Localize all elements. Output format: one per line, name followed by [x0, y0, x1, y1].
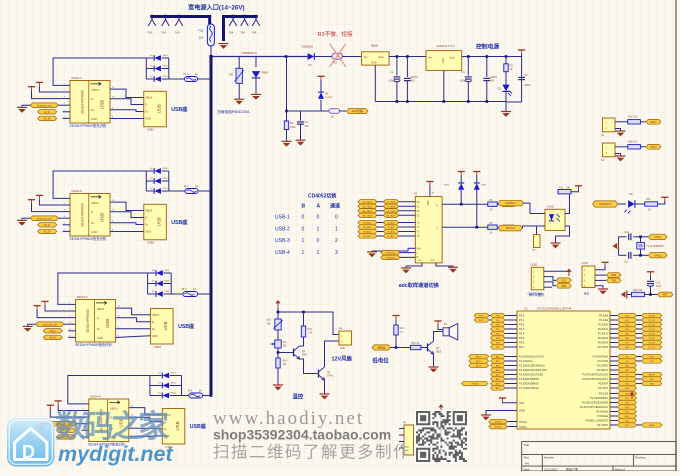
- power symbol speaker: [434, 320, 441, 322]
- net label right2 wkup: [642, 372, 663, 376]
- diode D32: [148, 281, 172, 287]
- junction on VIN bus: [210, 78, 213, 81]
- net label P0.4: [491, 331, 506, 335]
- wire Y1 to U1: [399, 226, 416, 228]
- ground below C4: [296, 139, 306, 141]
- wire fuse to VIN bus: [198, 293, 211, 295]
- svg-text:R18 510: R18 510: [628, 141, 638, 144]
- junction on VIN bus: [210, 293, 213, 296]
- svg-text:P0.7: P0.7: [519, 345, 525, 349]
- svg-text:P4.6/EX_LVD/RST2: P4.6/EX_LVD/RST2: [586, 420, 609, 423]
- svg-text:P2.0/A8: P2.0/A8: [599, 315, 609, 318]
- wire X1 to U1: [399, 205, 416, 207]
- regulator ground rail: [375, 101, 506, 103]
- svg-text:P1.7(ADC7)SCLK: P1.7(ADC7)SCLK: [519, 387, 539, 390]
- net label right P4.2: [618, 400, 637, 404]
- resistor R5: [488, 202, 497, 206]
- svg-text:R4: R4: [290, 121, 294, 125]
- connector TA5: [241, 17, 249, 27]
- svg-text:1K: 1K: [331, 116, 334, 119]
- net label right P2.7: [618, 345, 637, 349]
- net label right P4.7: [618, 423, 637, 427]
- svg-text:A1_D+: A1_D+: [44, 118, 52, 121]
- net label right2 beep: [642, 423, 663, 427]
- power symbol VCC pin2: [36, 194, 43, 196]
- svg-text:X: X: [436, 203, 438, 207]
- wire pot to R14: [277, 348, 279, 358]
- LED D5 power indicator: [502, 90, 509, 92]
- svg-text:8050: 8050: [302, 355, 308, 357]
- junction on VIN bus: [210, 394, 213, 397]
- fuse F1 10A vertical: [207, 24, 214, 46]
- net label right2 P2.5: [642, 336, 663, 340]
- ground pin4: [36, 425, 46, 427]
- wire R18 right: [645, 294, 658, 296]
- wire col1b: [489, 319, 491, 321]
- net label right2 P2.7: [642, 345, 663, 349]
- ground varistor: [234, 98, 244, 100]
- wire pin4 to ground: [22, 218, 63, 220]
- svg-text:A3_D+: A3_D+: [49, 337, 57, 340]
- net label right P2.6: [618, 340, 637, 344]
- svg-text:SE334+FP6600: SE334+FP6600: [86, 309, 90, 333]
- aux connector P9: [404, 425, 414, 455]
- svg-text:R18 10K: R18 10K: [633, 289, 643, 292]
- svg-text:P4.3/CCP2/T+ED2/SCLK: P4.3/CCP2/T+ED2/SCLK: [580, 406, 609, 409]
- net label P1.1: [491, 359, 506, 363]
- svg-text:A2_D-: A2_D-: [44, 224, 51, 227]
- wire resistor to label: [640, 146, 645, 148]
- wire R11 to power: [571, 190, 579, 192]
- svg-text:ALE: ALE: [625, 415, 630, 418]
- capacitor C1 220uF: [394, 76, 401, 78]
- svg-text:VBUS: VBUS: [152, 313, 159, 317]
- svg-text:10K: 10K: [400, 332, 404, 334]
- svg-text:10uF: 10uF: [656, 286, 662, 288]
- svg-text:R15: R15: [400, 328, 405, 330]
- svg-text:12V风扇: 12V风扇: [352, 108, 363, 113]
- svg-text:TIP41: TIP41: [327, 376, 334, 378]
- svg-text:KEY2: KEY2: [650, 146, 657, 149]
- svg-text:A2_ADC: A2_ADC: [363, 226, 372, 229]
- wire R15 to node: [395, 335, 397, 348]
- net label P0.5: [491, 336, 506, 340]
- svg-text:CD4052-A: CD4052-A: [386, 252, 396, 255]
- net label right P3.0: [618, 354, 637, 358]
- net label right P4.1: [618, 396, 637, 400]
- main VIN rail: [211, 56, 308, 58]
- wire D- IC to USB: [129, 417, 163, 422]
- watermark QR code: [415, 410, 469, 464]
- svg-text:扫描二维码了解更多制作: 扫描二维码了解更多制作: [213, 443, 411, 462]
- net label SCL: [556, 278, 571, 283]
- wire xtal top right: [633, 236, 648, 238]
- svg-text:GND: GND: [441, 57, 445, 63]
- svg-text:DR24-1: DR24-1: [72, 76, 83, 80]
- svg-text:U2: U2: [524, 306, 528, 310]
- net label A4_D+: [56, 435, 75, 439]
- svg-text:1: 1: [317, 250, 320, 256]
- svg-text:P3.2/INT0: P3.2/INT0: [597, 365, 609, 368]
- connector TA3: [175, 17, 183, 27]
- wire pin1 to diode rail: [68, 376, 150, 404]
- svg-text:104uF: 104uF: [525, 85, 532, 87]
- wire OLED gnd: [550, 277, 557, 281]
- svg-text:OLED: OLED: [531, 263, 538, 266]
- sheet right border: [675, 0, 677, 471]
- IC left pin stubs: [68, 302, 75, 337]
- junction TA2: [164, 15, 167, 18]
- transistor Q2 TIP41: [318, 370, 320, 378]
- net label X0 col1: [358, 200, 377, 204]
- svg-text:串口1通讯: 串口1通讯: [529, 292, 545, 297]
- svg-text:GND: GND: [152, 334, 158, 338]
- svg-text:220uF: 220uF: [389, 81, 396, 83]
- junction xtal2: [639, 254, 642, 257]
- net label P0.2: [491, 322, 506, 326]
- power arrow OLED: [566, 269, 571, 272]
- wire D+ IC to USB: [129, 427, 163, 430]
- svg-text:VBUS: VBUS: [145, 209, 152, 213]
- wire R2 branch: [505, 57, 507, 64]
- svg-text:1: 1: [302, 250, 305, 256]
- net label right P4.0: [618, 391, 637, 395]
- svg-text:3: 3: [335, 250, 338, 256]
- net label ADC-Y: [501, 225, 516, 230]
- wire pin2 to VCC: [58, 405, 81, 411]
- svg-text:U1: U1: [414, 192, 418, 196]
- svg-text:VBUS: VBUS: [97, 307, 105, 311]
- USB connector J4: [162, 409, 185, 445]
- net label right P4.5: [618, 414, 637, 418]
- net label X1 col2: [383, 204, 398, 208]
- wire c4 down: [486, 57, 488, 78]
- svg-text:SS8550D: SS8550D: [302, 44, 314, 48]
- net label X2 col2: [383, 209, 398, 213]
- net label A4_D-: [56, 428, 75, 432]
- wire GND IC to USB: [110, 231, 144, 233]
- net label XTAL1: [649, 234, 668, 239]
- MCU right pin labels P2: [598, 315, 609, 350]
- wire MCU VCC: [503, 401, 518, 404]
- svg-text:F20: F20: [199, 29, 204, 33]
- diode D12: [146, 66, 169, 72]
- svg-text:D+: D+: [91, 108, 95, 112]
- junction gr1: [396, 100, 399, 103]
- svg-text:GND: GND: [91, 117, 97, 121]
- power symbol opto: [575, 185, 582, 187]
- wire 7805 GND down: [374, 65, 376, 101]
- wire branch to bead: [287, 100, 322, 111]
- svg-text:D+: D+: [145, 110, 149, 114]
- svg-text:P0.6: P0.6: [519, 341, 525, 345]
- wire D- IC to USB: [110, 99, 144, 105]
- wire pin4 to ground: [28, 324, 69, 326]
- wire opto out bottom: [556, 226, 570, 243]
- svg-text:D-: D-: [145, 103, 148, 107]
- svg-text:1: 1: [317, 226, 320, 232]
- svg-text:KEY1: KEY1: [650, 121, 657, 124]
- net label A1_D-: [38, 110, 57, 114]
- capacitor C10: [628, 233, 630, 240]
- svg-text:ADC3: ADC3: [476, 365, 482, 368]
- transistor Q1 8050: [293, 349, 295, 357]
- wire fuse to VIN bus: [203, 395, 212, 397]
- svg-text:SDA: SDA: [650, 383, 655, 386]
- svg-text:U1_ADC: U1_ADC: [387, 222, 395, 225]
- power above D9: [458, 171, 465, 173]
- svg-text:VEE: VEE: [430, 260, 435, 262]
- svg-text:mydigit.net: mydigit.net: [58, 442, 174, 466]
- wire through QR region: [440, 408, 442, 458]
- net label A1_D+: [38, 116, 57, 120]
- svg-text:GND: GND: [145, 117, 151, 121]
- net label P0.0: [491, 313, 506, 317]
- ground crystal (left): [618, 242, 620, 250]
- regulator U6 AMS1117-5.0: [426, 51, 462, 71]
- wire pin3 to VCC: [32, 91, 63, 99]
- capacitor C2 104: [404, 77, 411, 79]
- net label KEY1: [646, 119, 661, 124]
- svg-text:100uF: 100uF: [460, 81, 467, 83]
- svg-text:P3.5/T1/INT/CLKOUT1: P3.5/T1/INT/CLKOUT1: [582, 378, 608, 381]
- svg-text:SCL: SCL: [561, 279, 566, 282]
- power symbol VCC pin3: [34, 305, 41, 307]
- wire D+ IC to USB: [116, 328, 151, 330]
- junction fan rail: [277, 311, 280, 314]
- svg-text:14D: 14D: [229, 73, 234, 77]
- svg-text:P2.5/A13: P2.5/A13: [598, 337, 609, 340]
- svg-text:CD4052-Y: CD4052-Y: [505, 202, 517, 205]
- svg-text:D+: D+: [91, 221, 95, 225]
- svg-text:RST: RST: [625, 425, 630, 427]
- fuse PL4: [189, 393, 203, 398]
- svg-text:D+: D+: [97, 327, 101, 331]
- svg-text:STC12C5A60S2-LQFP44: STC12C5A60S2-LQFP44: [537, 306, 572, 310]
- svg-text:A3_VBUS: A3_VBUS: [363, 210, 373, 213]
- connector TA6: [252, 17, 260, 27]
- svg-text:SE334+FP6600: SE334+FP6600: [81, 90, 85, 114]
- capacitor C12 10uF: [647, 280, 654, 282]
- svg-text:GND: GND: [519, 409, 525, 413]
- net label right2 P2.2: [642, 322, 663, 326]
- svg-text:VSS: VSS: [417, 260, 422, 262]
- wire pin1 to diode rail: [53, 58, 146, 85]
- wire D10 down: [476, 190, 478, 227]
- svg-text:A1_ADC: A1_ADC: [363, 222, 372, 225]
- wire X3 to U1: [399, 214, 416, 216]
- svg-text:CD4052-X: CD4052-X: [599, 202, 611, 206]
- svg-text:Revision: Revision: [635, 456, 646, 460]
- MCU right pin labels P4: [580, 393, 609, 428]
- MCU right stubs: [610, 316, 618, 426]
- svg-text:USB3: USB3: [154, 345, 162, 349]
- svg-text:ADC2: ADC2: [476, 360, 482, 363]
- svg-text:U2_ADC: U2_ADC: [387, 226, 395, 229]
- svg-text:21/11/2017: 21/11/2017: [544, 467, 558, 471]
- power symbol VCC pin2: [55, 400, 62, 402]
- capacitor C4b 104: [483, 77, 490, 79]
- key connector K1: [603, 118, 616, 132]
- svg-text:R16 1K: R16 1K: [412, 343, 420, 345]
- svg-text:CD4052-B: CD4052-B: [386, 258, 396, 260]
- svg-text:TXD: TXD: [650, 361, 655, 363]
- svg-text:Y: Y: [436, 226, 438, 230]
- svg-text:R17 510: R17 510: [628, 116, 638, 119]
- svg-text:8550: 8550: [436, 352, 442, 354]
- junction Q1 base node: [277, 351, 280, 354]
- net label P0.3: [491, 327, 506, 331]
- net label A2_D+: [38, 229, 57, 233]
- svg-text:P4.7/RST: P4.7/RST: [597, 424, 608, 427]
- svg-text:U4 817: U4 817: [547, 206, 556, 209]
- junction Y diode: [476, 226, 479, 229]
- net label P1.5: [491, 377, 506, 381]
- net label CD4052-B: [381, 255, 400, 259]
- ground INH: [367, 251, 377, 253]
- svg-text:D-: D-: [152, 320, 155, 324]
- net label 12V fan supply: [347, 109, 369, 114]
- ferrite bead L6: [329, 109, 340, 114]
- svg-text:P0.0: P0.0: [519, 314, 525, 318]
- net label Y3 col2: [383, 234, 398, 238]
- wire OLED scl: [550, 282, 557, 286]
- crystal Y1: [637, 242, 645, 249]
- svg-text:D-: D-: [91, 97, 94, 101]
- power arrow above QR: [438, 404, 443, 407]
- wire R14 to ground: [277, 368, 279, 385]
- svg-text:XTAL2: XTAL2: [654, 254, 662, 257]
- diode D22: [146, 178, 169, 184]
- svg-text:KEY1: KEY1: [479, 316, 485, 318]
- svg-text:P0.3: P0.3: [519, 327, 525, 331]
- svg-text:SS54: SS54: [163, 55, 169, 57]
- svg-text:SS54: SS54: [163, 76, 169, 78]
- svg-text:WKUP: WKUP: [649, 375, 656, 377]
- net label XTAL1 mcu: [489, 424, 508, 429]
- svg-text:RXD: RXD: [650, 357, 655, 359]
- power symbol above D4: [317, 75, 324, 77]
- analog switch U1 CD4052: [415, 197, 442, 263]
- resistor R16: [411, 345, 422, 349]
- svg-text:Sheet of: Sheet of: [615, 467, 626, 471]
- capacitor C5 104: [518, 76, 525, 78]
- svg-text:P4.1/ED1/MISO: P4.1/ED1/MISO: [590, 397, 608, 400]
- junction at x286: [285, 55, 288, 58]
- svg-text:Number: Number: [544, 456, 554, 460]
- svg-text:U1_VBUS: U1_VBUS: [386, 202, 396, 204]
- power symbol 5V: [518, 49, 525, 51]
- net label right2 P2.0: [642, 313, 663, 317]
- wire R2 to LED: [505, 72, 507, 85]
- svg-text:D-: D-: [97, 316, 100, 320]
- svg-text:USB: USB: [105, 319, 110, 328]
- wire 5V node: [521, 54, 523, 102]
- fuse PL2: [185, 189, 198, 194]
- svg-text:P3.4/T0/INT/CLKOUT0: P3.4/T0/INT/CLKOUT0: [582, 374, 608, 377]
- svg-text:USB座: USB座: [171, 105, 188, 113]
- net label P0.1: [491, 318, 506, 322]
- wire UART txd: [601, 279, 607, 281]
- regulator U5 7805: [362, 52, 390, 65]
- junction gr5: [486, 100, 489, 103]
- net label right P3.5: [618, 377, 637, 381]
- net label right2 P2.6: [642, 340, 663, 344]
- svg-text:TA6: TA6: [252, 31, 257, 35]
- junction TA1: [150, 15, 153, 18]
- svg-text:USB: USB: [100, 213, 105, 222]
- fuse PL3: [183, 292, 198, 297]
- wire rail to fuse PL4: [182, 395, 189, 397]
- ground opto: [551, 242, 561, 244]
- wire pin3 to VCC: [50, 409, 81, 417]
- USB charge module 2: IC U2 SE334+FP6600: [70, 194, 110, 237]
- capacitor C3 100uF: [465, 76, 472, 78]
- wire Q2 collector to fan: [325, 341, 340, 367]
- resistor R13 1K: [645, 202, 658, 206]
- svg-text:R13: R13: [646, 198, 651, 201]
- svg-text:2: 2: [335, 238, 338, 244]
- title block texts: [524, 443, 647, 472]
- transistor Q3 8050: [427, 344, 429, 352]
- svg-text:1: 1: [302, 238, 305, 244]
- junction c1: [396, 55, 399, 58]
- wire R3 to 7805: [343, 56, 362, 58]
- svg-text:P1.0(ADC0)CLKOUT2: P1.0(ADC0)CLKOUT2: [519, 356, 545, 359]
- svg-text:P0.5: P0.5: [519, 336, 525, 340]
- net label ADC col1 a: [474, 313, 489, 317]
- net label X2 col1: [358, 209, 377, 213]
- wire opto pin2: [523, 226, 546, 228]
- net label right2 P2.4: [642, 331, 663, 335]
- thermistor RT1: [275, 319, 281, 330]
- svg-text:10K: 10K: [566, 186, 571, 189]
- junction gr4: [467, 100, 470, 103]
- ground pin4: [17, 219, 27, 221]
- wire fuse to rail: [210, 46, 212, 57]
- net label opto input 2: [498, 225, 523, 231]
- svg-text:P1.1(ADC1): P1.1(ADC1): [519, 360, 533, 363]
- net label RXD: [607, 273, 622, 278]
- resistor R18: [632, 292, 645, 296]
- svg-text:XTAL1: XTAL1: [519, 425, 527, 429]
- svg-text:P2_2∕O: P2_2∕O: [648, 324, 655, 327]
- svg-text:Vin: Vin: [364, 55, 368, 59]
- svg-text:SE334+FP6600快充识别: SE334+FP6600快充识别: [75, 342, 112, 347]
- junction gr2: [406, 100, 409, 103]
- net label TXD: [607, 278, 622, 283]
- net label right P3.7: [618, 386, 637, 390]
- net label right P4.4: [618, 409, 637, 413]
- wire R6 to label: [497, 226, 500, 228]
- resistor R4: [284, 121, 288, 130]
- wire key to resistor: [615, 146, 628, 148]
- wire Q1 collector: [300, 337, 304, 346]
- svg-text:UART: UART: [582, 262, 589, 265]
- diode D21: [146, 168, 169, 174]
- diode rail right: [170, 273, 172, 294]
- ground UART: [598, 288, 608, 290]
- svg-text:R11: R11: [559, 186, 564, 189]
- svg-text:串口: 串口: [584, 292, 590, 296]
- net label X0 col2: [383, 200, 398, 204]
- wire OLED sda: [550, 286, 553, 288]
- svg-text:SS54: SS54: [163, 178, 169, 180]
- svg-text:P2.2/A10: P2.2/A10: [598, 324, 609, 327]
- resistor R14: [276, 358, 280, 368]
- resistor R2 1K: [504, 64, 508, 72]
- net label right P4.6: [618, 418, 637, 422]
